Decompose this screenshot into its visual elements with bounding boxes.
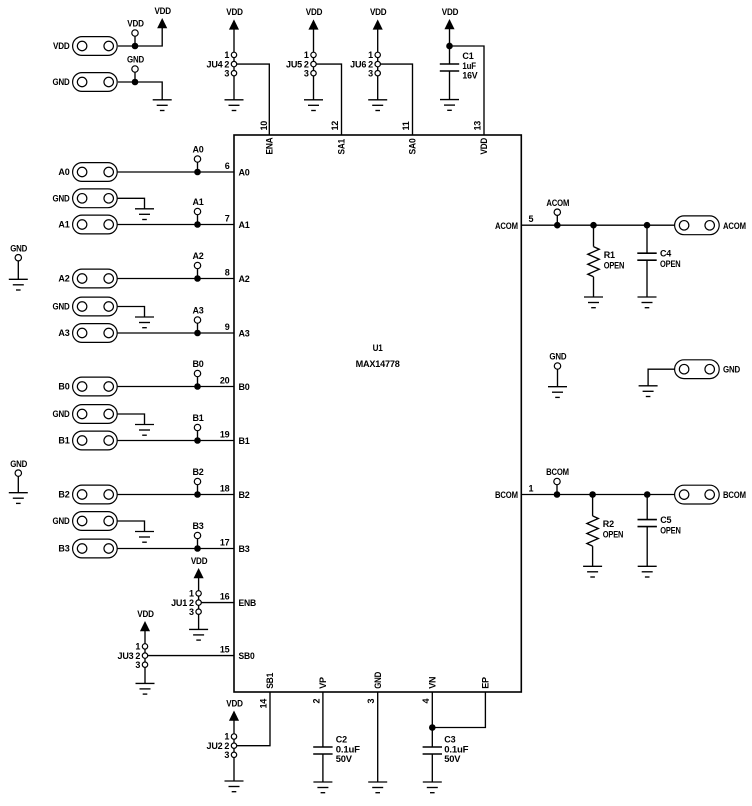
svg-text:0.1uF: 0.1uF [444, 744, 469, 754]
wire GND [118, 82, 162, 100]
svg-text:C1: C1 [462, 51, 473, 61]
svg-text:1: 1 [529, 484, 534, 494]
wire A2 [118, 278, 234, 280]
svg-text:A1: A1 [239, 220, 250, 230]
wire A0 [118, 171, 234, 173]
svg-text:4: 4 [421, 699, 431, 704]
junction A0 [194, 169, 201, 176]
connector A2 [73, 269, 118, 288]
connector GND [675, 360, 720, 379]
svg-text:GND: GND [53, 302, 71, 312]
ground [135, 316, 154, 318]
svg-text:ACOM: ACOM [495, 221, 518, 231]
svg-text:A0: A0 [239, 167, 250, 177]
svg-text:17: 17 [220, 538, 230, 548]
svg-text:15: 15 [220, 645, 230, 655]
wire B3 [118, 548, 234, 550]
wire C1 to ground [449, 71, 451, 100]
wire JU2 pin2 to SB1 [237, 692, 270, 746]
svg-text:SA0: SA0 [408, 138, 418, 154]
svg-text:C4: C4 [660, 248, 671, 258]
junction ACOM tp [554, 222, 561, 229]
svg-text:JU5: JU5 [286, 59, 302, 69]
svg-text:VP: VP [318, 677, 328, 689]
svg-text:VDD: VDD [137, 609, 154, 619]
junction B1 [194, 437, 201, 444]
junction A3 [194, 330, 201, 337]
wire ACOM [521, 224, 674, 226]
svg-text:GND: GND [53, 409, 71, 419]
wire JU1 pin2 to ENB [201, 602, 234, 604]
wire GND [118, 521, 145, 532]
junction VDD/C1 [446, 43, 453, 50]
junction A1 [194, 221, 201, 228]
svg-text:16V: 16V [462, 71, 477, 81]
wire A1 [118, 224, 234, 226]
svg-text:B3: B3 [192, 521, 203, 531]
svg-text:SA1: SA1 [337, 139, 347, 155]
wire VN [431, 692, 433, 747]
svg-text:7: 7 [225, 214, 230, 224]
svg-text:BCOM: BCOM [495, 490, 518, 500]
svg-text:A1: A1 [192, 197, 203, 207]
svg-text:GND: GND [723, 365, 741, 375]
ground [189, 628, 208, 630]
svg-text:8: 8 [225, 268, 230, 278]
wire GND [118, 307, 145, 318]
wire JU6 pin3 to ground [377, 76, 379, 100]
svg-text:3: 3 [366, 699, 376, 704]
svg-text:3: 3 [304, 68, 309, 78]
svg-text:10: 10 [259, 121, 269, 131]
svg-text:2: 2 [311, 699, 321, 704]
junction A2 [194, 275, 201, 282]
connector VDD [73, 37, 118, 56]
wire JU5 pin2 to IC [316, 64, 341, 135]
svg-text:B3: B3 [58, 544, 69, 554]
svg-text:JU2: JU2 [207, 741, 223, 751]
svg-text:GND: GND [127, 55, 145, 65]
junction GND [132, 79, 139, 86]
svg-text:GND: GND [53, 516, 71, 526]
wire GND connector to ground [648, 369, 675, 386]
ground [135, 424, 154, 426]
wire VP [322, 692, 324, 747]
wire GND [118, 198, 145, 209]
wire C3 to ground [431, 754, 433, 782]
ground [225, 780, 244, 782]
svg-text:OPEN: OPEN [603, 530, 624, 540]
svg-text:0.1uF: 0.1uF [336, 744, 361, 754]
ground [583, 565, 602, 567]
junction R2 [589, 491, 596, 498]
ground [313, 781, 332, 783]
svg-text:GND: GND [549, 352, 567, 362]
svg-text:JU4: JU4 [207, 59, 223, 69]
ground [135, 531, 154, 533]
svg-text:VDD: VDD [370, 7, 387, 17]
junction B3 [194, 545, 201, 552]
svg-text:B1: B1 [239, 436, 250, 446]
svg-text:SB1: SB1 [265, 673, 275, 689]
svg-text:B0: B0 [58, 382, 69, 392]
svg-text:EP: EP [481, 677, 491, 689]
svg-text:C2: C2 [336, 734, 347, 744]
wire JU3 pin2 to SB0 [148, 655, 234, 657]
junction R1 [590, 222, 597, 229]
svg-text:A3: A3 [58, 328, 69, 338]
wire VDD [118, 29, 162, 46]
svg-text:9: 9 [225, 322, 230, 332]
resistor R1 OPEN [593, 225, 595, 246]
wire JU6 pin2 to IC [380, 64, 412, 135]
op IC U1 MAX14778 body [234, 135, 521, 692]
connector B0 [73, 377, 118, 396]
svg-text:A2: A2 [239, 274, 250, 284]
ground [304, 99, 323, 101]
svg-text:12: 12 [330, 121, 340, 131]
svg-text:C3: C3 [444, 734, 455, 744]
svg-text:50V: 50V [444, 754, 460, 764]
svg-text:B0: B0 [239, 382, 250, 392]
svg-text:VDD: VDD [306, 7, 323, 17]
connector A3 [73, 324, 118, 343]
capacitor C5 OPEN [646, 495, 648, 520]
svg-text:50V: 50V [336, 754, 352, 764]
svg-text:JU6: JU6 [350, 59, 366, 69]
svg-text:C5: C5 [660, 515, 671, 525]
svg-text:A0: A0 [192, 145, 203, 155]
svg-text:GND: GND [53, 77, 71, 87]
junction B0 [194, 383, 201, 390]
junction B2 [194, 491, 201, 498]
wire B0 [118, 386, 234, 388]
svg-text:B2: B2 [58, 490, 69, 500]
ground [638, 565, 657, 567]
ground [548, 386, 567, 388]
ground [9, 278, 28, 280]
svg-text:VDD: VDD [226, 7, 243, 17]
svg-text:OPEN: OPEN [660, 259, 681, 269]
svg-text:A2: A2 [58, 274, 69, 284]
svg-text:VDD: VDD [442, 7, 459, 17]
svg-text:VDD: VDD [53, 41, 70, 51]
svg-text:19: 19 [220, 430, 230, 440]
svg-text:A3: A3 [239, 328, 250, 338]
svg-text:VDD: VDD [154, 6, 171, 16]
wire JU5 pin3 to ground [313, 76, 315, 100]
svg-text:1uF: 1uF [462, 61, 476, 71]
resistor R2 OPEN [592, 495, 594, 516]
connector A1 [73, 215, 118, 234]
connector B2 [73, 485, 118, 504]
wire BCOM [521, 494, 674, 496]
capacitor C4 OPEN [646, 225, 648, 253]
ground [638, 296, 657, 298]
svg-text:VDD: VDD [226, 698, 243, 708]
wire B1 [118, 440, 234, 442]
svg-text:VN: VN [428, 677, 438, 689]
wire JU3 pin3 to ground [144, 667, 146, 683]
svg-text:MAX14778: MAX14778 [356, 359, 400, 369]
svg-text:R1: R1 [604, 250, 615, 260]
svg-text:5: 5 [529, 214, 534, 224]
svg-text:SB0: SB0 [239, 651, 255, 661]
svg-text:VDD: VDD [479, 137, 489, 154]
capacitor C1 [440, 63, 459, 65]
svg-text:A2: A2 [192, 251, 203, 261]
svg-text:13: 13 [473, 121, 483, 131]
svg-text:3: 3 [224, 750, 229, 760]
capacitor C2 0.1uF [313, 746, 332, 748]
ground [135, 208, 154, 210]
connector GND [73, 189, 118, 208]
svg-text:VDD: VDD [191, 556, 208, 566]
connector BCOM [675, 485, 720, 504]
svg-text:OPEN: OPEN [660, 525, 681, 535]
wire GND [118, 414, 145, 425]
connector B1 [73, 431, 118, 450]
ground [368, 99, 387, 101]
connector ACOM [675, 216, 720, 235]
svg-text:A1: A1 [58, 220, 69, 230]
svg-text:ENB: ENB [239, 598, 257, 608]
junction VDD [132, 43, 139, 50]
svg-text:3: 3 [224, 68, 229, 78]
svg-text:A0: A0 [58, 167, 69, 177]
svg-text:20: 20 [220, 376, 230, 386]
ground [225, 99, 244, 101]
ground [423, 781, 442, 783]
wire B2 [118, 494, 234, 496]
connector GND [73, 512, 118, 531]
ground [639, 385, 658, 387]
svg-text:GND: GND [10, 243, 28, 253]
svg-text:3: 3 [135, 660, 140, 670]
svg-text:OPEN: OPEN [604, 260, 625, 270]
connector GND [73, 73, 118, 92]
connector GND [73, 297, 118, 316]
junction VN/EP [429, 724, 436, 731]
connector B3 [73, 539, 118, 558]
svg-text:BCOM: BCOM [546, 467, 569, 477]
junction BCOM tp [554, 491, 561, 498]
wire JU4 pin2 to IC [237, 64, 270, 135]
ground [368, 781, 387, 783]
svg-text:A3: A3 [192, 306, 203, 316]
svg-text:BCOM: BCOM [723, 490, 746, 500]
svg-text:B2: B2 [192, 467, 203, 477]
wire GND pin [377, 692, 379, 782]
connector A0 [73, 163, 118, 182]
svg-text:JU3: JU3 [118, 651, 134, 661]
svg-text:18: 18 [220, 484, 230, 494]
svg-text:ENA: ENA [265, 137, 275, 155]
wire VDD to C1 and pin 13 [449, 42, 451, 64]
svg-text:U1: U1 [373, 343, 383, 353]
ground [440, 99, 459, 101]
svg-text:ACOM: ACOM [546, 198, 569, 208]
ground [136, 682, 155, 684]
svg-text:14: 14 [259, 699, 269, 709]
wire VN to EP [432, 692, 485, 728]
svg-text:GND: GND [10, 459, 28, 469]
ground [584, 296, 603, 298]
ground [9, 492, 28, 494]
svg-text:B2: B2 [239, 490, 250, 500]
connector GND [73, 405, 118, 424]
junction C4 [644, 222, 651, 229]
svg-text:B3: B3 [239, 544, 250, 554]
svg-text:3: 3 [368, 68, 373, 78]
wire JU1 pin3 to ground [198, 614, 200, 629]
wire JU4 pin3 to ground [233, 76, 235, 100]
wire A3 [118, 332, 234, 334]
wire JU2 pin3 to ground [233, 758, 235, 782]
svg-text:B1: B1 [192, 413, 203, 423]
svg-text:R2: R2 [603, 519, 614, 529]
svg-text:VDD: VDD [127, 19, 144, 29]
junction C5 [644, 491, 651, 498]
capacitor C3 0.1uF [423, 746, 442, 748]
svg-text:JU1: JU1 [171, 598, 187, 608]
svg-text:GND: GND [373, 671, 383, 689]
svg-text:16: 16 [220, 592, 230, 602]
svg-text:3: 3 [189, 607, 194, 617]
svg-text:11: 11 [401, 121, 411, 130]
svg-text:B0: B0 [192, 359, 203, 369]
svg-text:ACOM: ACOM [723, 221, 746, 231]
svg-text:6: 6 [225, 161, 230, 171]
svg-text:GND: GND [53, 194, 71, 204]
ground [153, 99, 172, 101]
wire C2 to ground [322, 754, 324, 782]
svg-text:B1: B1 [58, 436, 69, 446]
